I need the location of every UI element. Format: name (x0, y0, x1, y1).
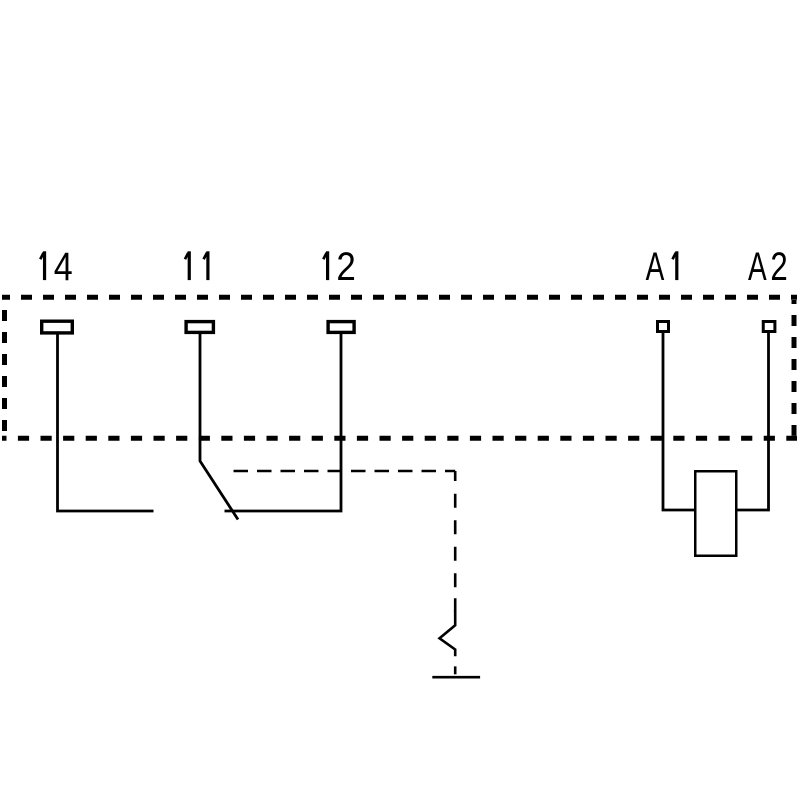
svg-text:A: A (646, 245, 665, 289)
svg-text:4: 4 (54, 243, 73, 288)
svg-text:2: 2 (770, 244, 787, 289)
svg-text:2: 2 (336, 244, 355, 289)
svg-text:A: A (748, 245, 767, 289)
